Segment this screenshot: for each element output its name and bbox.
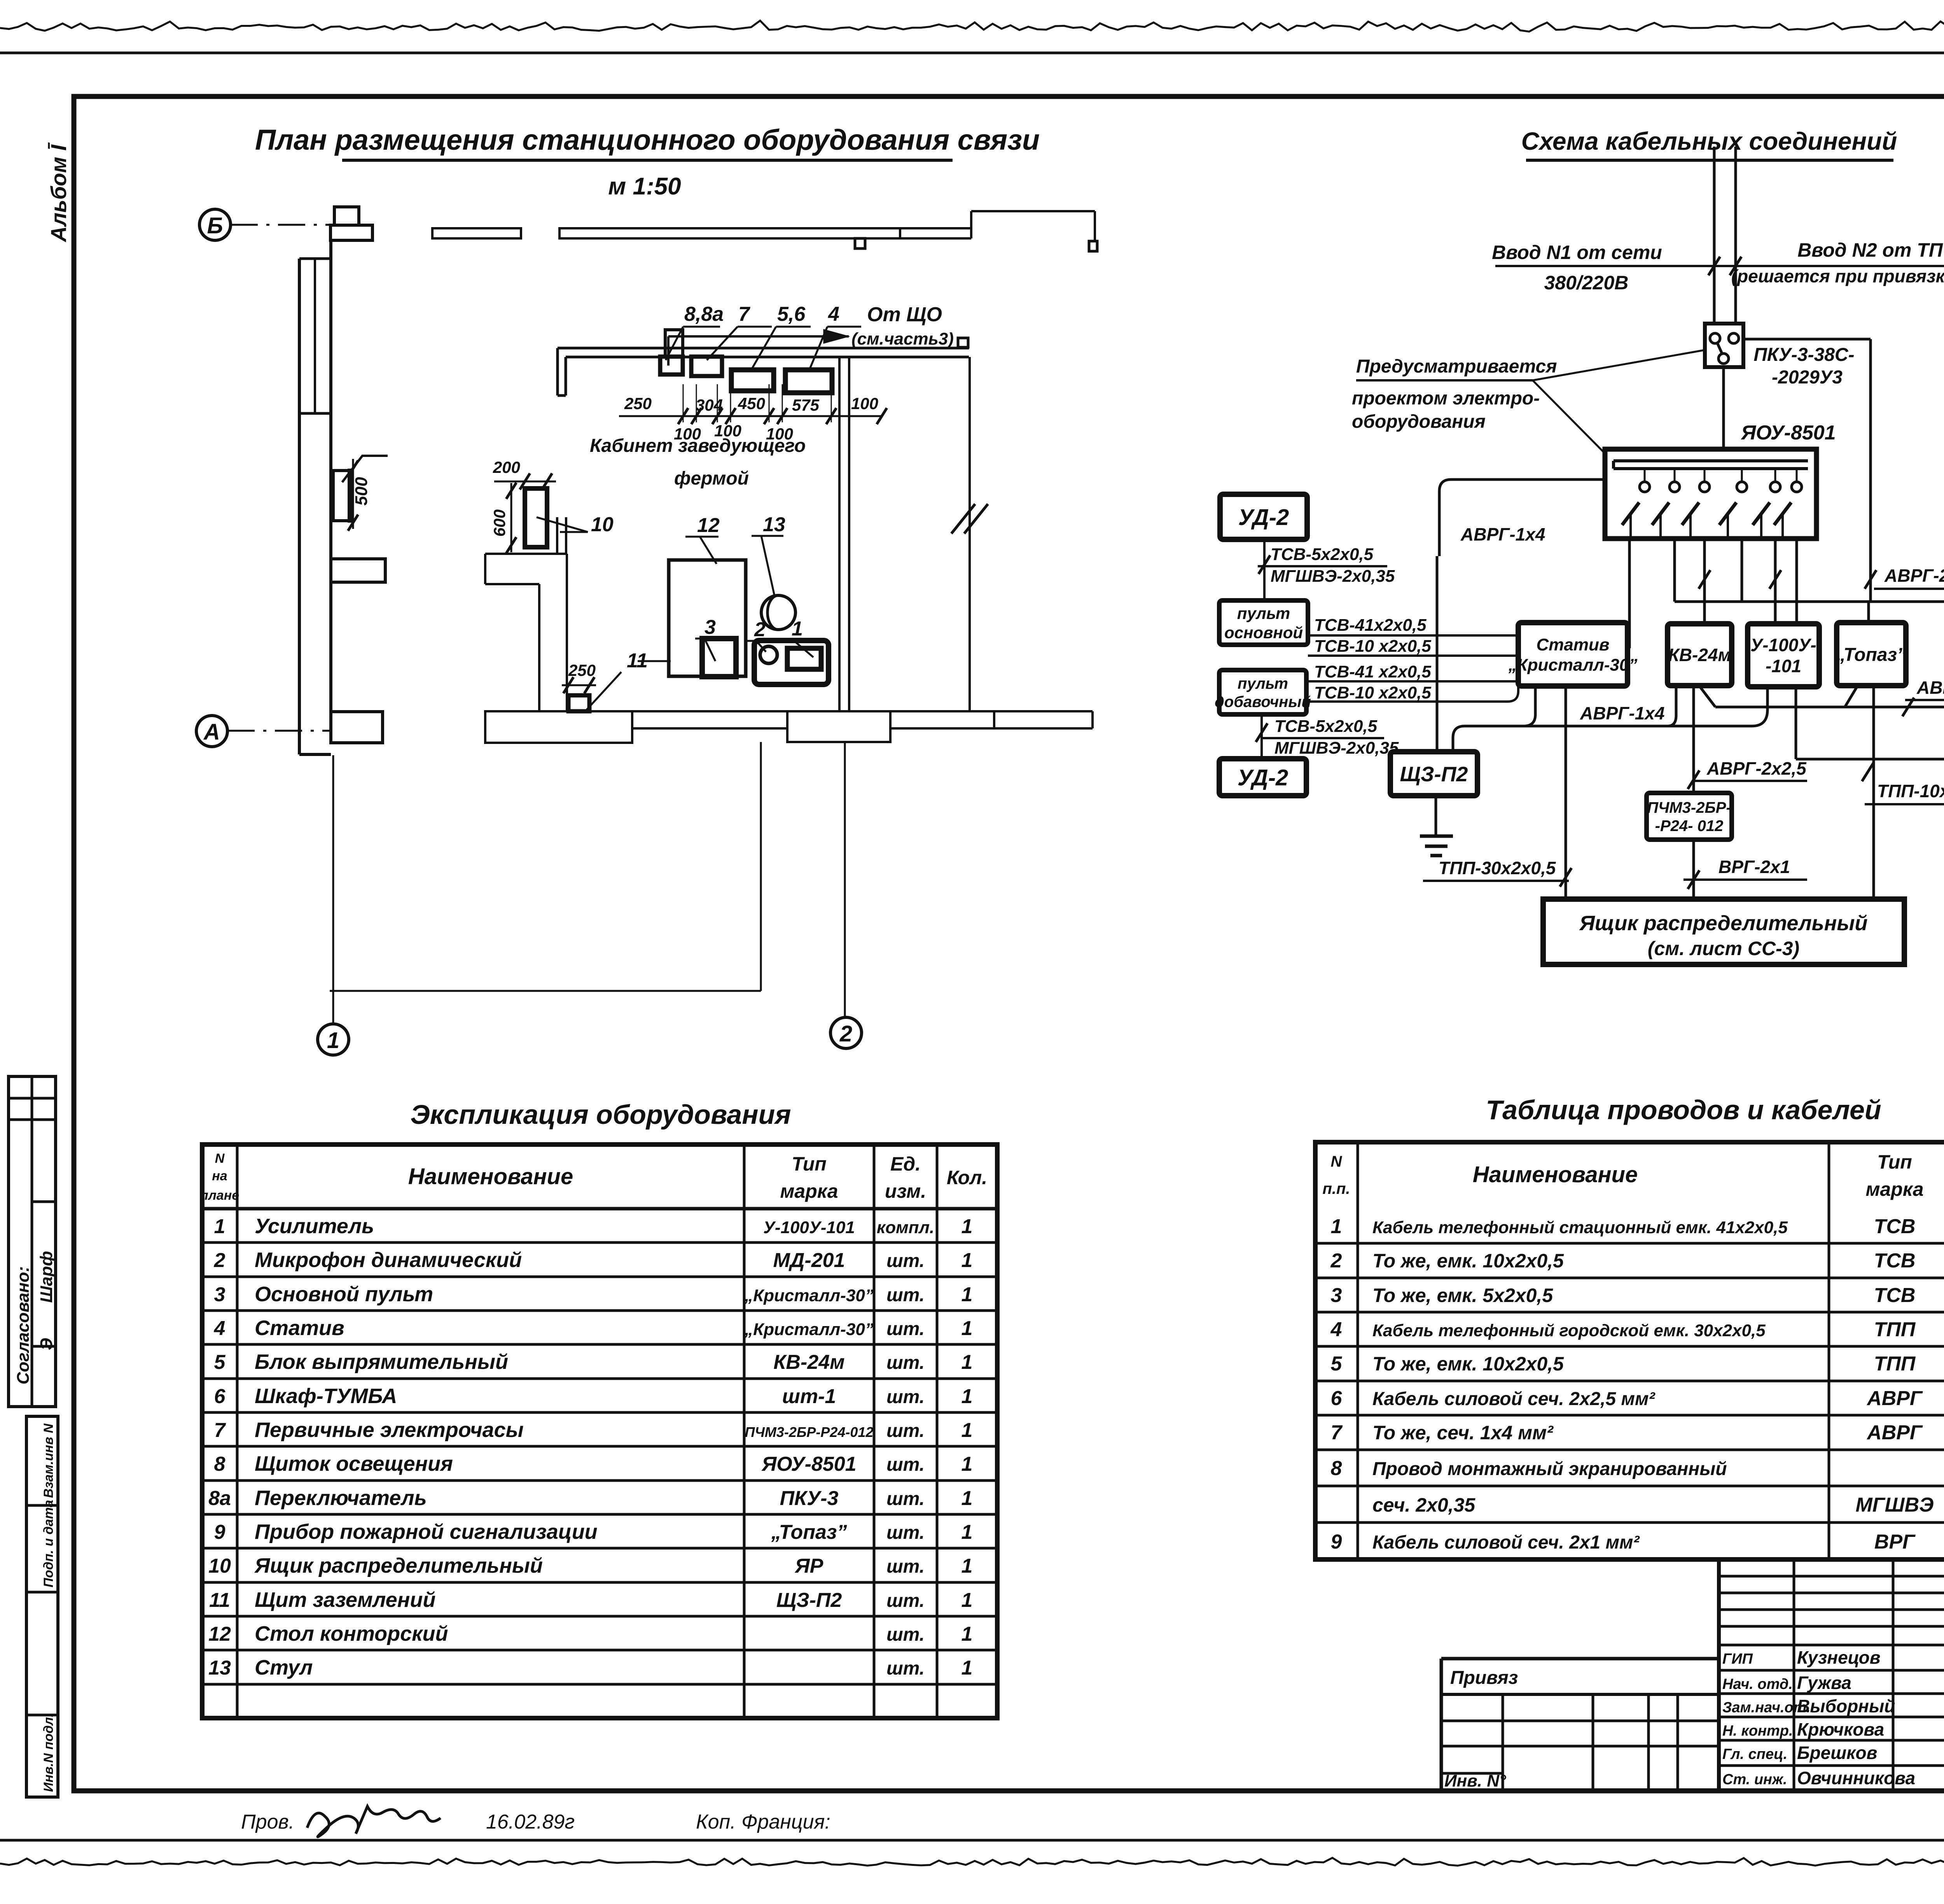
wire Статив down to ground bus [1453,686,1535,752]
svg-text:1: 1 [962,1351,973,1374]
svg-text:Нач. отд.: Нач. отд. [1722,1676,1793,1692]
svg-text:марка: марка [780,1180,838,1202]
svg-text:ТСВ-5х2х0,5: ТСВ-5х2х0,5 [1271,545,1374,564]
svg-text:ТПП: ТПП [1874,1353,1916,1375]
equipment table row line 14 [202,1683,997,1686]
svg-text:АВРГ: АВРГ [1866,1387,1923,1410]
axis line 1 [332,755,334,1023]
svg-text:2: 2 [754,618,766,641]
left exterior wall outer line [298,259,301,754]
svg-text:1: 1 [962,1555,973,1577]
svg-text:фермой: фермой [674,468,749,489]
svg-text:ТСВ-41х2х0,5: ТСВ-41х2х0,5 [1314,616,1427,635]
small box on cabinet wall [958,338,968,347]
wire пульт добавочный to УД-2 [1260,714,1263,759]
equipment table header row line [202,1207,997,1211]
svg-text:шт.: шт. [886,1251,925,1271]
svg-text:1: 1 [962,1419,973,1442]
svg-text:Кабинет заведующего: Кабинет заведующего [590,436,806,456]
box Топаз [1837,623,1906,686]
svg-text:Экспликация оборудования: Экспликация оборудования [410,1099,791,1130]
svg-text:6: 6 [214,1385,226,1408]
wire ЯОУ to Статив [1628,539,1631,648]
svg-text:1: 1 [962,1385,973,1408]
svg-text:основной: основной [1224,623,1303,642]
svg-text:Крючкова: Крючкова [1797,1719,1884,1739]
cabinet left wall upper stub [556,348,559,395]
bottom wall middle lines [632,710,787,712]
svg-text:12: 12 [697,514,720,537]
arrow От ЩО [667,336,670,366]
svg-text:ЩЗ-П2: ЩЗ-П2 [1400,763,1468,786]
box ЩЗ-П2 [1390,752,1477,796]
svg-text:м 1:50: м 1:50 [608,173,681,200]
torn paper edge top [0,21,1944,31]
svg-text:4: 4 [1330,1318,1342,1341]
cable table row line 6 [1315,1414,1944,1417]
axis dash-dot line А [227,730,330,732]
svg-text:Стол конторский: Стол конторский [255,1622,448,1645]
power inlet line 2 [1734,147,1737,324]
box пульт основной [1219,600,1308,645]
svg-text:1: 1 [962,1453,973,1475]
svg-text:450: 450 [738,394,765,413]
axis circle Б [199,209,231,240]
svg-text:Кабель телефонный стационный е: Кабель телефонный стационный емк. 41х2х0… [1372,1218,1788,1237]
svg-text:ТСВ-41 х2х0,5: ТСВ-41 х2х0,5 [1314,662,1431,681]
svg-text:ЯОУ-8501: ЯОУ-8501 [1740,422,1836,444]
axis line 2 [844,742,846,1017]
ground symbol [1435,796,1437,835]
svg-text:ПЧМ3-2БР-Р24-012: ПЧМ3-2БР-Р24-012 [745,1424,874,1440]
cable table columns [1357,1142,1359,1559]
wire УД-2 to пульт основной [1263,539,1266,600]
svg-text:АВРГ-2х2,5: АВРГ-2х2,5 [1884,565,1944,586]
svg-text:Шкаф-ТУМБА: Шкаф-ТУМБА [255,1384,397,1408]
switch ПКУ-3-38С [1705,324,1743,367]
equipment table row line 1 [202,1241,997,1244]
wall pilaster top [334,207,359,225]
svg-text:То же, емк. 5х2х0,5: То же, емк. 5х2х0,5 [1372,1284,1553,1306]
equipment table row line 7 [202,1445,997,1448]
svg-text:304: 304 [696,396,723,414]
svg-text:Коп. Франция:: Коп. Франция: [696,1811,830,1833]
box Статив Кристалл-30 [1518,623,1628,686]
svg-text:ТСВ-10 х2х0,5: ТСВ-10 х2х0,5 [1314,637,1431,656]
title block personnel grid [1719,1559,1944,1791]
svg-text:ТПП-10х2х0,5: ТПП-10х2х0,5 [1877,781,1944,801]
svg-text:3: 3 [214,1283,226,1306]
svg-text:проектом электро-: проектом электро- [1352,388,1540,409]
svg-text:пульт: пульт [1237,604,1290,622]
svg-text:шт.: шт. [886,1421,925,1441]
cable table row line 7 [1315,1449,1944,1451]
svg-text:Овчинникова: Овчинникова [1797,1768,1915,1788]
wire Топаз to ЯР ТПП-10 [1872,686,1875,899]
panel fuse circuits [1644,469,1646,481]
svg-text:Ввод N1 от сети: Ввод N1 от сети [1492,241,1662,263]
svg-text:1: 1 [962,1215,973,1238]
door threshold [787,711,890,742]
left exterior wall inner line [329,240,332,712]
svg-text:Предусматривается: Предусматривается [1356,356,1557,377]
svg-text:Привяз: Привяз [1450,1668,1518,1688]
svg-text:ТСВ-10 х2х0,5: ТСВ-10 х2х0,5 [1314,683,1431,702]
svg-text:ПКУ-3-38С-: ПКУ-3-38С- [1753,345,1854,365]
svg-text:Н. контр.: Н. контр. [1722,1723,1793,1739]
svg-text:250: 250 [568,661,596,679]
axis circle 2 [830,1017,862,1048]
amplifier unit items 1,2 [754,640,829,684]
svg-text:2: 2 [839,1021,852,1046]
svg-text:Усилитель: Усилитель [255,1214,374,1238]
svg-text:ТСВ: ТСВ [1874,1249,1916,1272]
svg-text:АВРГ-1х4: АВРГ-1х4 [1460,524,1545,544]
svg-text:АВРГ-2х2,5: АВРГ-2х2,5 [1706,758,1807,779]
svg-text:„Кристалл-30”: „Кристалл-30” [744,1286,874,1305]
svg-text:2: 2 [1330,1249,1342,1272]
svg-text:380/220В: 380/220В [1544,272,1629,294]
svg-text:6: 6 [1331,1387,1343,1410]
svg-text:Гужва: Гужва [1797,1673,1851,1693]
svg-text:2: 2 [214,1249,226,1272]
svg-text:1: 1 [962,1487,973,1510]
cabinet left wall lower stub [556,517,558,554]
svg-text:КВ-24м: КВ-24м [773,1351,844,1374]
svg-text:250: 250 [624,394,652,413]
cable table row line 2 [1315,1277,1944,1279]
svg-text:(решается при привязке проект: (решается при привязке проекта) [1731,266,1944,286]
box Ящик распределительный [1543,899,1904,964]
wire ПКУ right to bus [1743,338,1871,341]
svg-text:Брешков: Брешков [1797,1743,1877,1763]
wire ТСВ-41 основной to Статив [1308,634,1518,637]
cabinet top wall double line [558,347,969,350]
svg-text:Наименование: Наименование [1473,1162,1638,1187]
svg-text:АВРГ-1х4: АВРГ-1х4 [1580,703,1664,723]
svg-text:шт.: шт. [886,1556,925,1577]
device 8 on wall [660,357,683,374]
svg-text:Пров.: Пров. [241,1811,294,1833]
wall bottom cap [299,753,331,756]
inlet header rule [1495,265,1944,267]
привяз box [1441,1657,1719,1661]
svg-text:Ед.: Ед. [890,1153,921,1175]
corridor wall panel 1 [432,228,521,238]
axis circle А [196,716,227,747]
box пульт добавочный [1219,670,1306,714]
svg-text:МД-201: МД-201 [773,1249,845,1272]
svg-text:N: N [1331,1153,1343,1170]
svg-text:оборудования: оборудования [1352,411,1486,432]
svg-text:Тип: Тип [792,1153,827,1175]
svg-text:Кабель силовой сеч. 2х1 м: Кабель силовой сеч. 2х1 мм² [1372,1532,1640,1553]
svg-text:N: N [215,1151,225,1166]
equipment table frame [202,1144,997,1718]
svg-text:Переключатель: Переключатель [255,1486,427,1510]
привяз sub grid [1502,1694,1504,1791]
svg-text:Щит заземлений: Щит заземлений [255,1588,435,1612]
svg-text:марка: марка [1865,1178,1923,1200]
svg-text:1: 1 [962,1657,973,1679]
svg-text:10: 10 [208,1555,231,1577]
svg-text:1: 1 [327,1028,339,1053]
wire АВРГ-1х4 horizontal [1524,725,1752,728]
svg-text:Ящик распределительный: Ящик распределительный [1579,912,1868,935]
svg-text:Кабель силовой сеч. 2х2,5: Кабель силовой сеч. 2х2,5 мм² [1372,1389,1656,1409]
cable table frame [1315,1142,1944,1559]
svg-text:Согласовано:: Согласовано: [14,1266,33,1384]
window division upper [299,257,331,260]
svg-text:шт.: шт. [886,1624,925,1645]
svg-text:Кол.: Кол. [947,1167,987,1188]
svg-text:изм.: изм. [885,1180,926,1202]
svg-text:Ящик распределительный: Ящик распределительный [254,1554,543,1577]
svg-text:9: 9 [1331,1531,1342,1553]
box УД-2 bottom [1219,759,1306,796]
equipment table row line 11 [202,1581,997,1584]
wire Топаз diagonal down [1845,686,1858,707]
svg-text:шт.: шт. [886,1454,925,1475]
svg-text:ЩЗ-П2: ЩЗ-П2 [776,1589,842,1612]
equipment table row line 12 [202,1615,997,1618]
cable table row line 5 [1315,1380,1944,1382]
box УД-2 top [1220,494,1307,539]
svg-text:1: 1 [962,1521,973,1543]
equipment table row line 4 [202,1343,997,1346]
svg-text:Первичные электрочасы: Первичные электрочасы [255,1418,524,1442]
svg-text:Инв. N°: Инв. N° [1444,1771,1506,1790]
svg-text:1: 1 [962,1623,973,1645]
svg-text:Подп. и дата: Подп. и дата [41,1500,56,1587]
svg-text:4: 4 [828,303,839,325]
cable table row line 8 [1315,1485,1944,1487]
svg-text:7: 7 [214,1419,226,1442]
svg-text:Тип: Тип [1877,1151,1912,1173]
svg-text:8: 8 [1331,1457,1342,1480]
svg-text:1: 1 [962,1249,973,1272]
svg-text:шт.: шт. [886,1319,925,1339]
svg-text:Наименование: Наименование [408,1164,573,1189]
axis dash-dot line Б [231,224,335,226]
svg-text:ТСВ: ТСВ [1874,1215,1916,1238]
svg-text:(см.часть3): (см.часть3) [851,329,954,348]
wire ЯОУ output to КВ-24м [1703,539,1706,624]
svg-text:шт.: шт. [886,1353,925,1373]
wire ТСВ-10 добавочный to Статив [1306,686,1518,702]
distribution box item 10 [525,488,547,547]
svg-text:5,6: 5,6 [777,303,806,325]
wall break symbol [951,504,975,534]
dimension chain line [619,415,882,417]
desk item 12 [669,560,746,676]
wire bus drop to Топаз [1867,602,1870,623]
outer border bottom line [0,1839,1944,1842]
svg-text:10: 10 [591,513,614,536]
outer border top line [0,52,1944,54]
svg-text:Схема кабельных соединений: Схема кабельных соединений [1521,127,1897,155]
svg-text:АВРГ: АВРГ [1866,1421,1923,1444]
svg-text:сеч. 2х0,35: сеч. 2х0,35 [1372,1494,1475,1516]
svg-text:Блок выпрямительный: Блок выпрямительный [255,1350,508,1374]
svg-text:То же, емк. 10х2х0,5: То же, емк. 10х2х0,5 [1372,1250,1564,1272]
svg-text:1: 1 [962,1283,973,1306]
svg-text:ВРГ-2х1: ВРГ-2х1 [1718,857,1790,877]
wire АВРГ-2х2,5 to switch [1715,706,1944,709]
svg-text:11: 11 [209,1589,230,1612]
svg-text:ТПП-30х2х0,5: ТПП-30х2х0,5 [1439,858,1556,878]
console item 3 [702,639,736,677]
callout leader lines [1533,350,1705,380]
svg-text:Основной пульт: Основной пульт [255,1283,433,1306]
svg-text:(см. лист СС-3): (см. лист СС-3) [1648,938,1799,959]
svg-text:Ст. инж.: Ст. инж. [1722,1771,1787,1788]
svg-text:„Топаз”: „Топаз” [771,1521,847,1543]
svg-text:7: 7 [1331,1421,1343,1444]
small junction box on corridor wall [855,238,865,248]
plan right wall [969,357,971,710]
svg-text:шт.: шт. [886,1285,925,1305]
svg-text:УД-2: УД-2 [1238,765,1288,790]
equipment table row line 10 [202,1547,997,1550]
wire ПКУ to ЯОУ [1722,367,1725,449]
svg-text:7: 7 [738,303,750,325]
axis circle 1 [318,1024,349,1055]
torn paper edge bottom [0,1858,1944,1865]
wire Статив to ЯР [1565,686,1567,899]
svg-text:шт-1: шт-1 [782,1385,836,1408]
svg-text:8: 8 [214,1453,226,1475]
svg-text:12: 12 [208,1623,231,1645]
window middle line [314,259,316,413]
svg-text:УД-2: УД-2 [1238,505,1289,530]
svg-text:шт.: шт. [886,1489,925,1509]
wire ТСВ-41 добавочный to Статив [1306,680,1518,682]
svg-text:5: 5 [1331,1353,1343,1375]
svg-text:-2029У3: -2029У3 [1772,367,1843,388]
cabinet left L-wall vertical [538,584,540,711]
cabinet partition wall [838,357,841,710]
svg-text:Выборный: Выборный [1797,1696,1895,1716]
svg-text:Э: Э [37,1338,56,1350]
svg-text:шт.: шт. [886,1387,925,1407]
equipment table row line 9 [202,1513,997,1516]
svg-text:ТПП: ТПП [1874,1318,1916,1341]
equipment table row line 6 [202,1411,997,1414]
cable table row line 3 [1315,1311,1944,1314]
svg-text:200: 200 [493,458,520,476]
wall door-side protrusion [331,712,383,743]
svg-text:Взам.инв N: Взам.инв N [41,1423,56,1498]
box ПЧМ3-2БР-Р24-012 [1647,793,1732,840]
svg-text:4: 4 [214,1317,226,1340]
ground shield item 11 [568,695,589,711]
dimension 500 vertical [352,459,354,529]
svg-text:Альбом Ī: Альбом Ī [46,142,71,243]
svg-text:Инв.N подл.: Инв.N подл. [41,1713,56,1792]
radiator leader line [342,456,388,482]
svg-text:-Р24- 012: -Р24- 012 [1655,817,1724,835]
svg-text:ПКУ-3: ПКУ-3 [780,1487,839,1510]
wire ПЧМ3 to ЯР [1692,840,1695,899]
svg-text:Ввод N2 от ТП: Ввод N2 от ТП [1797,239,1943,261]
svg-text:8,8а: 8,8а [684,303,724,325]
svg-text:Шарф: Шарф [37,1251,56,1303]
svg-text:ТСВ: ТСВ [1874,1284,1916,1307]
svg-text:плане: плане [200,1188,239,1203]
svg-text:3: 3 [705,616,716,639]
plan bottom reference vertical [760,742,762,991]
cable table row line 1 [1315,1242,1944,1245]
device 7 on wall [691,357,722,376]
equipment table row line 13 [202,1649,997,1652]
wire ЯОУ output to bus [1741,539,1743,602]
cable table row line 4 [1315,1345,1944,1348]
wire ЯОУ left output down [1439,479,1605,556]
svg-text:Статив: Статив [1537,635,1610,654]
lighting panel ЯОУ-8501 [1605,449,1816,539]
box У-100У-101 [1748,624,1819,687]
bottom wall right segment [890,710,972,712]
panel busbar [1614,459,1808,462]
svg-text:шт.: шт. [886,1591,925,1611]
svg-text:План размещения станционного: План размещения станционного оборудовани… [255,124,1040,156]
svg-text:Щиток освещения: Щиток освещения [255,1452,453,1475]
svg-text:13: 13 [208,1657,231,1679]
svg-text:Кабель телефонный городской: Кабель телефонный городской емк. 30х2х0,… [1372,1321,1766,1340]
svg-text:„Кристалл-30”: „Кристалл-30” [744,1320,874,1339]
svg-text:16.02.89г: 16.02.89г [486,1811,575,1833]
equipment table row line 2 [202,1276,997,1278]
svg-text:100: 100 [851,394,878,413]
box КВ-24м [1668,624,1732,686]
svg-text:1: 1 [962,1317,973,1340]
device 4 on wall [785,370,832,393]
svg-text:То же, емк. 10х2х0,5: То же, емк. 10х2х0,5 [1372,1353,1564,1375]
cabinet left L-wall horizontal [485,553,566,555]
svg-text:ГИП: ГИП [1722,1651,1753,1667]
svg-text:Стул: Стул [255,1656,313,1679]
signature squiggle [307,1806,441,1837]
power inlet line 1 [1713,147,1716,324]
equipment table row line 5 [202,1377,997,1380]
svg-text:Таблица проводов и кабелей: Таблица проводов и кабелей [1486,1095,1881,1125]
corridor wall panel 2 [559,228,900,238]
svg-text:Прибор пожарной сигнализации: Прибор пожарной сигнализации [255,1520,598,1543]
radiator item on wall [333,471,351,521]
svg-text:1: 1 [792,618,803,640]
switch 8а box above wall [665,330,683,356]
svg-text:1: 1 [1331,1215,1342,1238]
svg-text:1: 1 [214,1215,226,1238]
svg-text:„Топаз”: „Топаз” [1836,644,1906,665]
svg-text:шт.: шт. [886,1658,925,1679]
svg-text:Б: Б [207,213,223,238]
bottom wall left segment [485,711,632,743]
svg-text:8а: 8а [208,1487,231,1510]
svg-text:5: 5 [214,1351,226,1374]
svg-text:МГШВЭ-2х0,35: МГШВЭ-2х0,35 [1271,567,1395,586]
svg-text:То же, сеч. 1х4 мм²: То же, сеч. 1х4 мм² [1372,1422,1554,1444]
plan bottom reference line [330,990,761,992]
svg-text:У-100У-: У-100У- [1750,635,1816,655]
svg-text:-101: -101 [1766,656,1801,676]
svg-text:КВ-24м: КВ-24м [1668,645,1731,665]
svg-text:ТСВ-5х2х0,5: ТСВ-5х2х0,5 [1274,717,1378,736]
svg-text:9: 9 [214,1521,226,1543]
window division lower [299,412,331,415]
svg-text:шт.: шт. [886,1522,925,1543]
